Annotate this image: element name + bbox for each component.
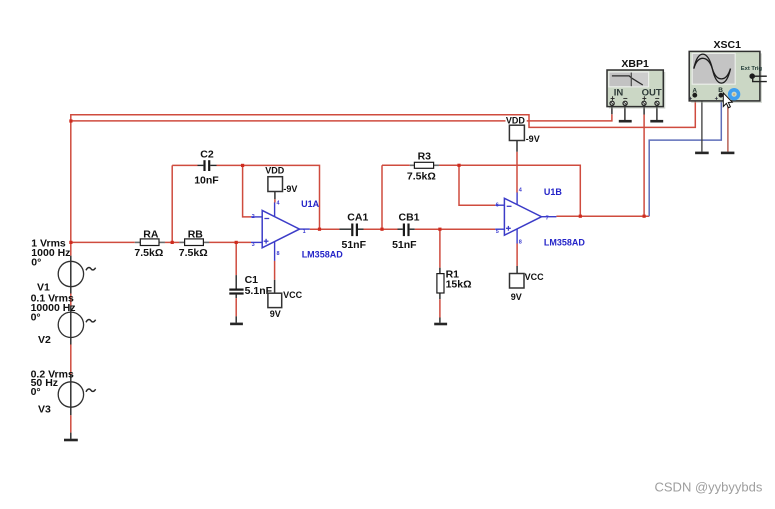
svg-text:-9V: -9V bbox=[283, 184, 297, 194]
svg-text:7: 7 bbox=[546, 216, 549, 222]
wire: CB1 to U1B + input bbox=[410, 228, 415, 230]
svg-text:-9V: -9V bbox=[526, 134, 540, 144]
svg-text:5: 5 bbox=[496, 229, 499, 235]
resistor RA bbox=[134, 228, 165, 259]
capacitor C2 bbox=[194, 149, 219, 187]
wire: R3 left horizontal bbox=[382, 164, 410, 166]
ground below R1 bbox=[434, 323, 447, 326]
svg-text:0°: 0° bbox=[31, 257, 41, 269]
instrument XBP1 bode plotter bbox=[607, 58, 665, 109]
svg-text:RB: RB bbox=[188, 228, 204, 240]
svg-text:7.5kΩ: 7.5kΩ bbox=[179, 247, 208, 259]
svg-text:LM358AD: LM358AD bbox=[544, 237, 586, 247]
wire: branch to U1A inverting input bbox=[243, 165, 251, 217]
svg-text:9V: 9V bbox=[270, 309, 281, 319]
svg-text:VDD: VDD bbox=[506, 115, 526, 125]
svg-text:VCC: VCC bbox=[525, 272, 545, 282]
wire: C2 branch vertical bbox=[171, 165, 173, 242]
svg-text:VDD: VDD bbox=[265, 165, 285, 175]
ground below sources bbox=[64, 439, 78, 442]
power supply VDD (-9V) above U1B near XBP1 bbox=[506, 115, 540, 192]
wire: branch to U1B inverting input bbox=[459, 165, 495, 205]
wire: source net top horizontal to XSC1 A+ bbox=[71, 97, 696, 127]
wire: XBP1 OUT+ vertical to output node bbox=[643, 105, 645, 114]
wire: R1 branch down to ground bbox=[439, 229, 441, 268]
svg-text:V1: V1 bbox=[37, 281, 50, 293]
svg-text:C1: C1 bbox=[245, 274, 259, 286]
svg-text:0°: 0° bbox=[31, 386, 41, 398]
svg-text:8: 8 bbox=[519, 239, 522, 245]
svg-text:15kΩ: 15kΩ bbox=[446, 278, 472, 290]
wire: U1A output line to CA1 bbox=[310, 228, 340, 230]
svg-text:U1B: U1B bbox=[544, 187, 563, 197]
svg-text:C2: C2 bbox=[200, 149, 214, 161]
svg-text:51nF: 51nF bbox=[392, 239, 417, 251]
resistor R1 bbox=[437, 269, 472, 293]
svg-text:IN: IN bbox=[614, 88, 624, 99]
svg-text:XSC1: XSC1 bbox=[714, 39, 742, 51]
junction node dots bbox=[69, 119, 645, 244]
ground below XSC1 B- bbox=[723, 96, 728, 151]
svg-text:7.5kΩ: 7.5kΩ bbox=[407, 170, 436, 182]
svg-text:V2: V2 bbox=[38, 334, 51, 346]
svg-text:VCC: VCC bbox=[283, 290, 303, 300]
resistor RB bbox=[179, 228, 209, 259]
cursor highlight ring on XSC1 bbox=[730, 90, 739, 99]
wire: V2 to V3 bbox=[70, 338, 72, 345]
svg-text:51nF: 51nF bbox=[342, 239, 367, 251]
svg-text:Ext Trig: Ext Trig bbox=[741, 66, 763, 72]
capacitor C1 bbox=[229, 274, 272, 297]
wire: C2 left horizontal bbox=[172, 164, 197, 166]
wire: RB to opamp + input bbox=[209, 241, 251, 243]
svg-text:U1A: U1A bbox=[301, 199, 320, 209]
mouse cursor arrow bbox=[723, 93, 732, 108]
ground below XBP1 OUT- bbox=[656, 105, 658, 120]
wire: C2 right horizontal to feedback corner bbox=[210, 164, 216, 166]
wire: U1B output line bbox=[556, 215, 649, 217]
op-amp U1A bbox=[251, 199, 343, 261]
instrument XSC1 oscilloscope bbox=[689, 39, 767, 103]
svg-text:B: B bbox=[718, 87, 723, 94]
svg-text:RA: RA bbox=[143, 228, 159, 240]
ground below XBP1 IN- bbox=[624, 105, 626, 120]
svg-text:LM358AD: LM358AD bbox=[302, 250, 344, 260]
ground below XSC1 A- bbox=[697, 96, 702, 151]
svg-text:V3: V3 bbox=[38, 404, 51, 416]
wire: R3 branch vertical from node bbox=[381, 165, 383, 229]
svg-text:+: + bbox=[715, 97, 719, 103]
wire: R3 right to output corner bbox=[439, 165, 581, 216]
svg-text:3: 3 bbox=[252, 242, 255, 248]
wire: RA-RB segment bbox=[165, 241, 180, 243]
svg-text:CB1: CB1 bbox=[399, 212, 420, 224]
svg-text:CA1: CA1 bbox=[347, 212, 368, 224]
power supply VCC (9V) below U1B bbox=[510, 244, 545, 302]
op-amp U1B bbox=[495, 187, 585, 248]
svg-text:10nF: 10nF bbox=[194, 175, 219, 187]
ground below C1 bbox=[230, 323, 243, 326]
svg-text:6: 6 bbox=[496, 203, 499, 209]
wire: input line to RA bbox=[71, 241, 135, 243]
svg-text:1: 1 bbox=[303, 229, 306, 235]
wire: lead into V1 bbox=[70, 256, 72, 287]
svg-text:0°: 0° bbox=[31, 312, 41, 324]
svg-text:XBP1: XBP1 bbox=[621, 58, 649, 70]
wire: source net horizontal to XBP1 IN+ bbox=[71, 114, 612, 121]
svg-text:2: 2 bbox=[252, 214, 255, 220]
AC source V3 bbox=[31, 368, 96, 415]
capacitor CB1 bbox=[392, 212, 420, 252]
svg-text:9V: 9V bbox=[511, 292, 522, 302]
wire: main source vertical bbox=[70, 121, 72, 256]
capacitor CA1 bbox=[342, 212, 369, 252]
svg-text:CSDN @yybyybds: CSDN @yybyybds bbox=[655, 480, 763, 495]
wire: XSC1 channel B blue wire bbox=[649, 97, 721, 216]
wire: C1 branch down bbox=[235, 242, 237, 275]
svg-text:8: 8 bbox=[277, 251, 280, 257]
power supply VDD (-9V) above U1A bbox=[265, 165, 297, 202]
svg-text:7.5kΩ: 7.5kΩ bbox=[134, 247, 163, 259]
svg-text:R3: R3 bbox=[418, 151, 432, 163]
wire: CA1 to CB1 bbox=[358, 228, 364, 230]
wire: XBP1 IN+ terminal stub bbox=[611, 105, 613, 114]
wire: V1 to V2 bbox=[70, 287, 72, 294]
AC source V1 bbox=[31, 237, 95, 293]
power supply VCC (9V) below U1A bbox=[268, 261, 303, 319]
resistor R3 bbox=[407, 151, 439, 183]
AC source V2 bbox=[31, 293, 96, 347]
wire: V3 to ground bbox=[70, 408, 72, 415]
svg-text:+: + bbox=[689, 97, 693, 103]
